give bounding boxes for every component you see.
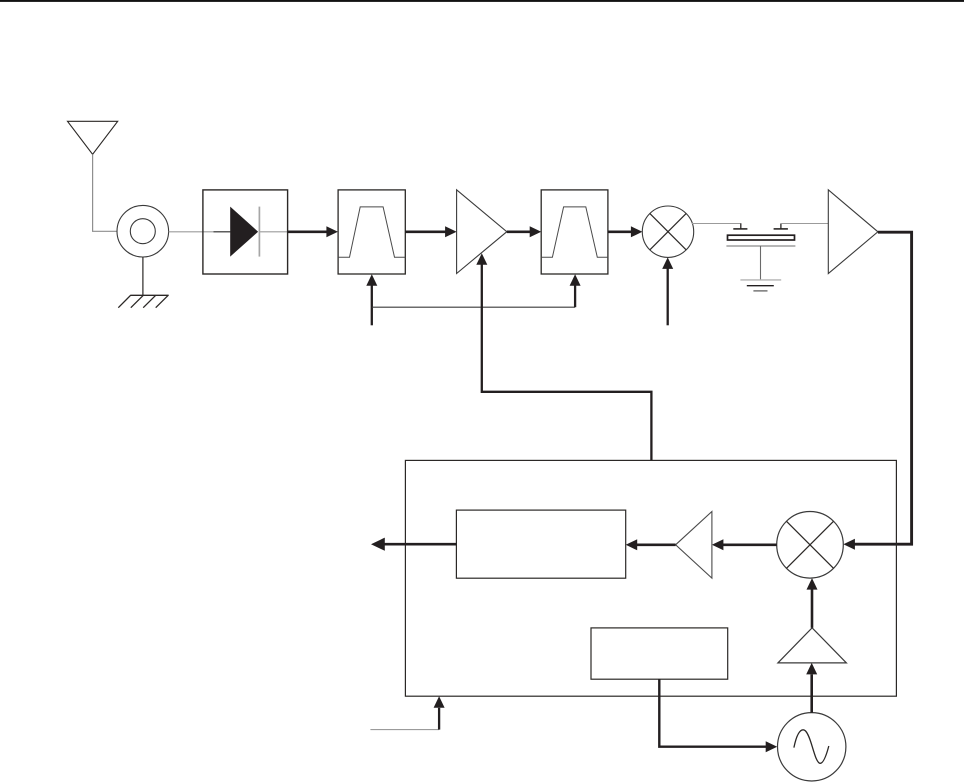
- arrow tuning into PLL box: [438, 708, 440, 730]
- wire diode to detector box edge: [259, 231, 287, 233]
- diode D1: [230, 207, 258, 257]
- VCO oscillator: [778, 713, 846, 781]
- detector box: [203, 190, 288, 274]
- wire antenna to connector: [93, 154, 118, 231]
- arrow M2 to buffer A3: [723, 543, 777, 546]
- diode cathode bar: [258, 207, 260, 257]
- antenna: [68, 121, 118, 154]
- PLL block box: [405, 460, 896, 696]
- mixer M2: [777, 512, 844, 579]
- ceramic filter terminal left: [740, 224, 742, 229]
- top border bar: [0, 0, 964, 2]
- BPF2 response curve: [541, 207, 608, 257]
- wire plate to earth ground: [760, 246, 762, 280]
- arrow BPF2 to mixer M1: [608, 231, 632, 234]
- earth ground: [740, 279, 781, 281]
- LO buffer A4: [778, 628, 847, 663]
- wire segment into diode: [214, 231, 231, 233]
- AGC arrow into BPF2: [574, 285, 576, 307]
- arrow A1 to BPF2: [507, 231, 531, 234]
- LPF block: [456, 510, 625, 578]
- ceramic filter body: [728, 235, 795, 240]
- amplifier A1: [457, 190, 507, 274]
- BPF2 box: [541, 190, 608, 274]
- connector J1: [117, 205, 169, 257]
- chassis ground: [118, 295, 168, 307]
- ceramic filter terminal right: [774, 228, 788, 230]
- reference block: [591, 628, 728, 679]
- ceramic filter lower plate: [726, 245, 795, 247]
- BPF1 response curve: [338, 207, 405, 257]
- mixer M1: [642, 206, 693, 257]
- arrow BPF1 to amp A1: [405, 231, 446, 234]
- arrow A3 to LPF block: [637, 543, 676, 546]
- tuning input wire: [370, 729, 439, 731]
- sine wave: [794, 730, 829, 764]
- bandpass filter BPF1 box: [338, 190, 405, 274]
- buffer A3: [676, 512, 712, 579]
- AGC arrow into BPF1: [371, 285, 373, 325]
- wire reference block to VCO: [659, 679, 766, 747]
- wire ceramic filter to amp A2: [781, 223, 828, 225]
- arrow detector to BPF1: [288, 231, 328, 234]
- audio output arrow: [384, 543, 457, 546]
- AGC bus wire: [372, 306, 575, 308]
- wire mixer M1 to ceramic filter: [692, 223, 742, 225]
- wire connector to ground: [142, 257, 144, 295]
- wire A2 output to mixer M2: [854, 232, 911, 544]
- arrow VCO to A4: [810, 674, 813, 712]
- arrow A4 to mixer M2: [811, 589, 814, 628]
- amplifier A2: [828, 190, 878, 274]
- LO arrow into mixer M1: [667, 269, 669, 326]
- wire connector to detector: [169, 231, 231, 233]
- AGC feedback wire from PLL box to amp A1: [482, 264, 652, 460]
